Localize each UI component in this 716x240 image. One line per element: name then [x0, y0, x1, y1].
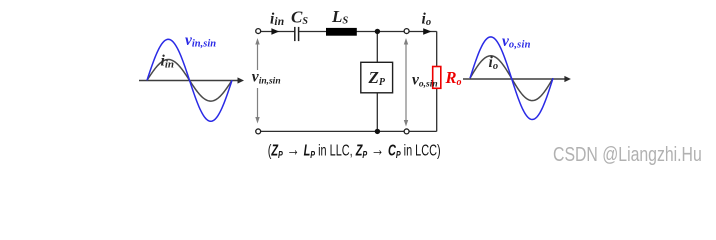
measurement arrow v_in,sin (gray, double headed)	[255, 38, 259, 124]
right plot axis arrowhead	[564, 76, 571, 82]
svg-text:(ZP → LP in LLC, ZP → CP in LC: (ZP → LP in LLC, ZP → CP in LCC)	[268, 139, 441, 160]
svg-text:io: io	[422, 11, 432, 29]
svg-text:vin,sin: vin,sin	[252, 69, 281, 87]
resistor R_o (red)	[433, 67, 441, 89]
left input sine plot axis	[139, 80, 239, 82]
junction dot top (node between Ls and Zp)	[375, 29, 380, 34]
terminal circle bottom-mid (output)	[404, 129, 409, 134]
left plot axis arrowhead	[238, 77, 245, 83]
arrow i_o	[423, 28, 431, 35]
svg-text:vo,sin: vo,sin	[502, 33, 531, 50]
wire: top rail capacitor to right corner	[299, 31, 437, 33]
right plot current sine i_o (gray)	[470, 56, 553, 101]
svg-text:CS: CS	[291, 8, 308, 28]
inductor L_S (solid bar)	[326, 28, 357, 36]
wire: top rail left of capacitor	[258, 31, 295, 33]
wire: Zp branch vertical	[376, 31, 378, 131]
left plot current sine i_in (gray)	[147, 60, 232, 102]
right output sine plot axis	[463, 78, 565, 80]
svg-text:Ro: Ro	[445, 68, 462, 88]
capacitor C_S plates	[295, 27, 299, 41]
measurement arrow v_o,sin (gray, double headed)	[404, 38, 408, 127]
right plot voltage sine v_o,sin (blue)	[470, 37, 553, 120]
wire: bottom rail	[258, 130, 437, 132]
svg-text:vin,sin: vin,sin	[185, 32, 216, 49]
left plot voltage sine v_in,sin (blue)	[147, 39, 232, 121]
svg-text:LS: LS	[331, 7, 348, 27]
svg-text:CSDN @Liangzhi.Hu: CSDN @Liangzhi.Hu	[553, 143, 702, 165]
terminal circle top-mid (output)	[404, 29, 409, 34]
impedance Z_P box	[361, 62, 393, 93]
junction dot bottom	[375, 129, 380, 134]
arrow i_in	[271, 28, 279, 35]
wire: right vertical through Ro	[436, 31, 438, 131]
terminal circle top-left	[256, 29, 261, 34]
svg-text:iin: iin	[161, 53, 175, 71]
svg-text:iin: iin	[270, 11, 285, 29]
terminal circle bottom-left	[256, 129, 261, 134]
